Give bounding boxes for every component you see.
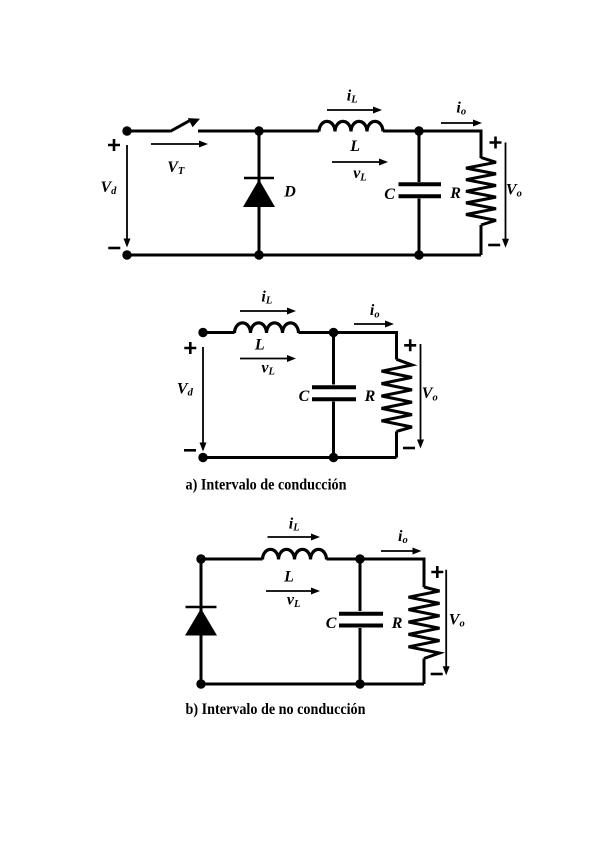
label C (2) — [299, 388, 310, 405]
current arrow io (3) — [381, 548, 422, 555]
svg-text:L: L — [349, 138, 360, 155]
label L (2) — [254, 337, 265, 354]
label R (2) — [364, 388, 376, 405]
resistor R (1) — [466, 130, 496, 256]
wire inductor to node (2) — [299, 331, 334, 334]
label C (3) — [326, 615, 337, 632]
inductor L (1) — [319, 121, 383, 131]
label VT — [167, 159, 185, 177]
node output top (3) — [355, 554, 364, 563]
svg-text:C: C — [326, 615, 337, 632]
node bottom-left (2) — [198, 453, 207, 462]
wire top rail left segment — [127, 130, 170, 133]
switch S1 — [170, 118, 200, 131]
diode (3) — [185, 559, 217, 684]
svg-text:io: io — [398, 528, 408, 546]
voltage arrow vL (2) — [240, 355, 296, 362]
caption a — [186, 477, 347, 494]
wire output node to right corner — [419, 130, 481, 133]
label Vd (2) — [177, 381, 194, 399]
label Vo (3) — [449, 611, 465, 629]
label - (Vo 1) — [488, 244, 500, 247]
label io (3) — [398, 528, 408, 546]
wire inductor to output node — [383, 130, 419, 133]
capacitor C (2) — [312, 333, 356, 458]
wire top rail (3) — [201, 558, 263, 561]
svg-text:L: L — [283, 568, 294, 585]
label io (1) — [456, 99, 466, 117]
svg-text:C: C — [299, 388, 310, 405]
svg-text:io: io — [456, 99, 466, 117]
label vL (3) — [287, 592, 301, 610]
svg-text:Vo: Vo — [422, 385, 438, 403]
voltage arrow Vo (1) — [502, 143, 509, 248]
capacitor C (3) — [339, 559, 383, 684]
label L (1) — [349, 138, 360, 155]
node output top (1) — [414, 126, 423, 135]
label + (Vd top) — [108, 139, 120, 151]
svg-text:D: D — [283, 184, 296, 201]
svg-text:b) Intervalo de no conducción: b) Intervalo de no conducción — [186, 701, 366, 718]
current arrow iL (2) — [240, 308, 296, 315]
voltage arrow Vd — [124, 145, 131, 248]
voltage arrow vL (1) — [332, 159, 388, 166]
svg-text:a) Intervalo de conducción: a) Intervalo de conducción — [186, 477, 347, 494]
label R (3) — [391, 615, 403, 632]
current arrow VT — [151, 141, 208, 148]
wire bottom rail (3) — [201, 683, 424, 686]
label - (Vd bottom) — [108, 247, 120, 250]
label R (1) — [449, 185, 461, 202]
wire top rail middle segment — [198, 130, 319, 133]
label Vo (2) — [422, 385, 438, 403]
wire bottom rail (1) — [127, 254, 481, 257]
svg-text:vL: vL — [353, 165, 367, 183]
current arrow iL (1) — [327, 107, 382, 114]
node bottom capacitor (3) — [355, 679, 364, 688]
node bottom-left (1) — [122, 250, 131, 259]
node top-left (2) — [198, 328, 207, 337]
wire top rail (2) — [203, 331, 235, 334]
node top-left — [122, 126, 131, 135]
node bottom capacitor (1) — [414, 250, 423, 259]
resistor R (2) — [382, 331, 413, 458]
caption b — [186, 701, 366, 718]
label Vo (1) — [506, 181, 522, 199]
label D — [283, 184, 296, 201]
current arrow iL (3) — [268, 534, 321, 541]
label C (1) — [384, 186, 395, 203]
svg-text:L: L — [254, 337, 265, 354]
svg-text:R: R — [449, 185, 461, 202]
voltage arrow Vd (2) — [200, 347, 207, 452]
svg-text:R: R — [391, 615, 403, 632]
svg-text:vL: vL — [287, 592, 301, 610]
label L (3) — [283, 568, 294, 585]
label iL (1) — [347, 88, 358, 106]
svg-text:iL: iL — [261, 288, 272, 306]
node diode top — [254, 126, 263, 135]
svg-text:Vo: Vo — [449, 611, 465, 629]
label - (Vo 2) — [403, 447, 415, 450]
label iL (2) — [261, 288, 272, 306]
label vL (2) — [261, 359, 275, 377]
current arrow io (2) — [354, 321, 394, 328]
label iL (3) — [289, 515, 300, 533]
inductor L (3) — [263, 549, 327, 559]
label io (2) — [370, 302, 380, 320]
node bottom capacitor (2) — [329, 453, 338, 462]
svg-text:iL: iL — [347, 88, 358, 106]
label + (Vo 3) — [431, 566, 443, 578]
node bottom diode (1) — [254, 250, 263, 259]
label - (Vd 2) — [184, 449, 196, 452]
voltage arrow vL (3) — [266, 588, 320, 595]
node output top (2) — [329, 328, 338, 337]
node top-left (3) — [196, 554, 205, 563]
label Vd — [101, 179, 118, 197]
wire inductor to node (3) — [327, 558, 361, 561]
voltage arrow Vo (3) — [443, 570, 450, 676]
node bottom-left (3) — [196, 679, 205, 688]
svg-text:Vd: Vd — [177, 381, 194, 399]
svg-text:VT: VT — [167, 159, 185, 177]
wire node to right corner (3) — [360, 558, 424, 561]
svg-text:iL: iL — [289, 515, 300, 533]
diode D — [243, 131, 275, 255]
voltage arrow Vo (2) — [417, 344, 424, 449]
current arrow io (1) — [441, 120, 482, 127]
label - (Vo 3) — [431, 673, 443, 676]
capacitor C (1) — [399, 131, 442, 255]
inductor L (2) — [235, 323, 299, 333]
wire node to right corner (2) — [334, 331, 397, 334]
svg-text:Vd: Vd — [101, 179, 118, 197]
svg-text:R: R — [364, 388, 376, 405]
svg-text:Vo: Vo — [506, 181, 522, 199]
resistor R (3) — [409, 558, 440, 685]
label + (Vo 1) — [490, 137, 502, 149]
svg-text:C: C — [384, 186, 395, 203]
label vL (1) — [353, 165, 367, 183]
svg-text:io: io — [370, 302, 380, 320]
label + (Vd 2) — [184, 342, 196, 354]
wire bottom rail (2) — [203, 456, 397, 459]
svg-text:vL: vL — [261, 359, 275, 377]
label + (Vo 2) — [404, 339, 416, 351]
